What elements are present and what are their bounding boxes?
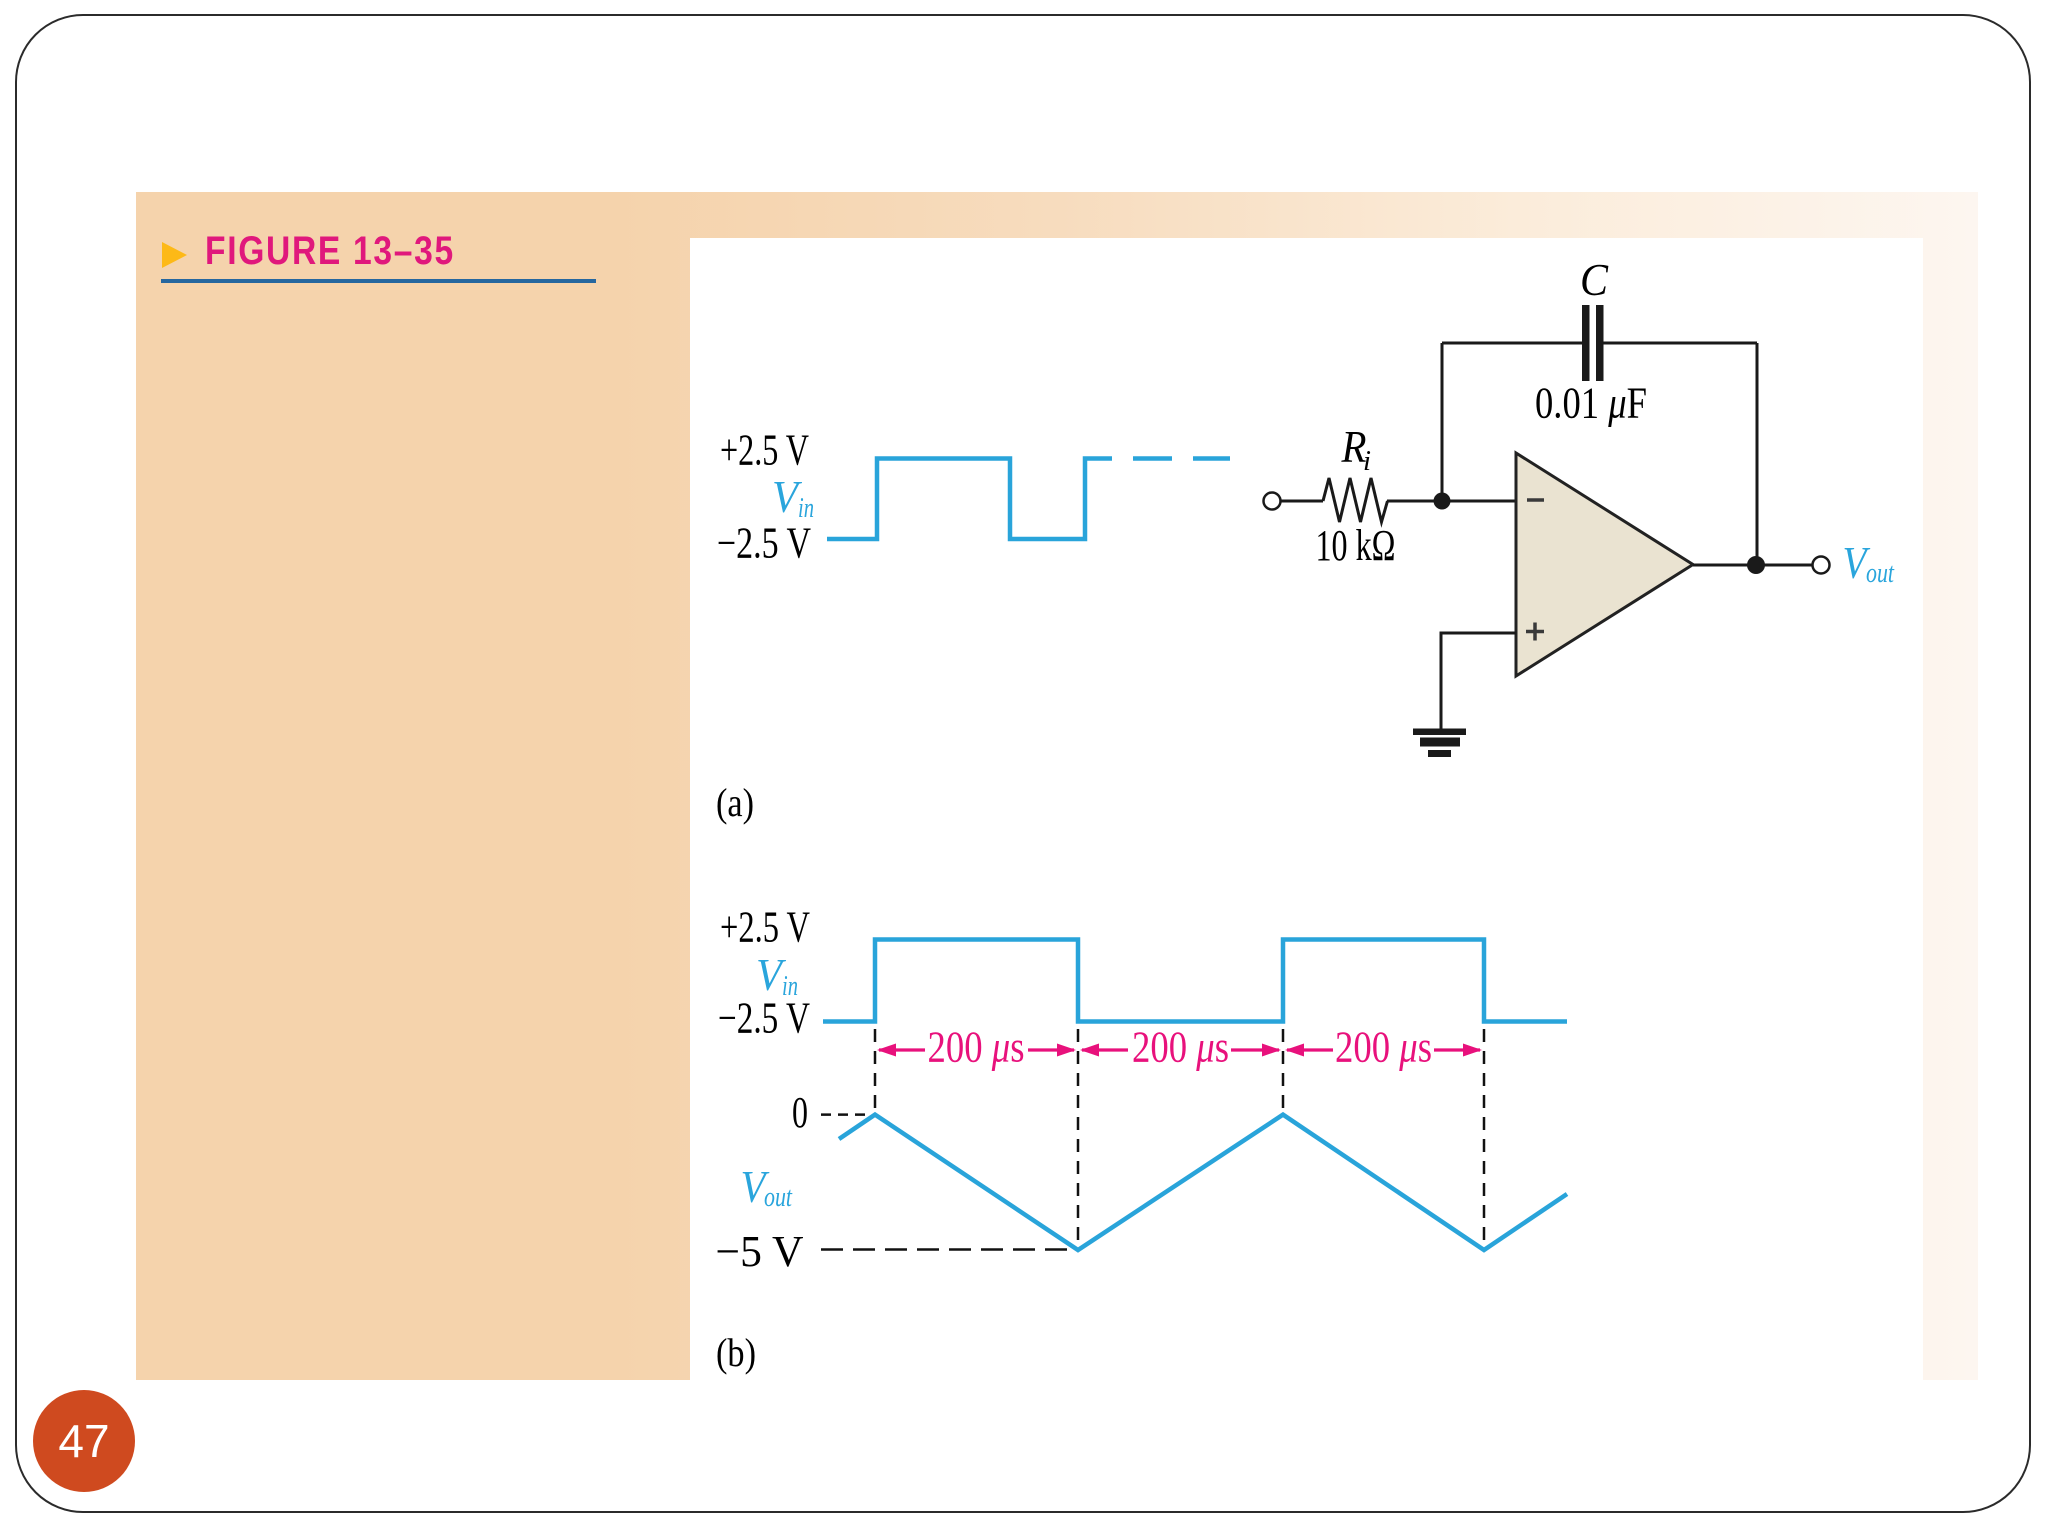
svg-text:200 μs: 200 μs — [928, 1023, 1025, 1072]
svg-text:i: i — [1363, 446, 1371, 477]
svg-text:0: 0 — [792, 1088, 808, 1137]
svg-text:C: C — [1580, 254, 1609, 305]
svg-text:200 μs: 200 μs — [1132, 1023, 1229, 1072]
svg-text:10 kΩ: 10 kΩ — [1316, 521, 1396, 570]
svg-text:0.01 μF: 0.01 μF — [1535, 379, 1647, 428]
svg-text:(a): (a) — [716, 780, 754, 825]
svg-text:200 μs: 200 μs — [1335, 1023, 1432, 1072]
svg-text:−2.5 V: −2.5 V — [717, 519, 811, 568]
svg-text:(b): (b) — [716, 1330, 756, 1375]
svg-text:+2.5 V: +2.5 V — [720, 426, 809, 475]
svg-text:−2.5 V: −2.5 V — [718, 994, 810, 1043]
svg-text:out: out — [764, 1182, 793, 1213]
svg-text:−5 V: −5 V — [716, 1227, 804, 1276]
svg-text:+2.5 V: +2.5 V — [720, 903, 810, 952]
svg-text:out: out — [1866, 558, 1895, 589]
